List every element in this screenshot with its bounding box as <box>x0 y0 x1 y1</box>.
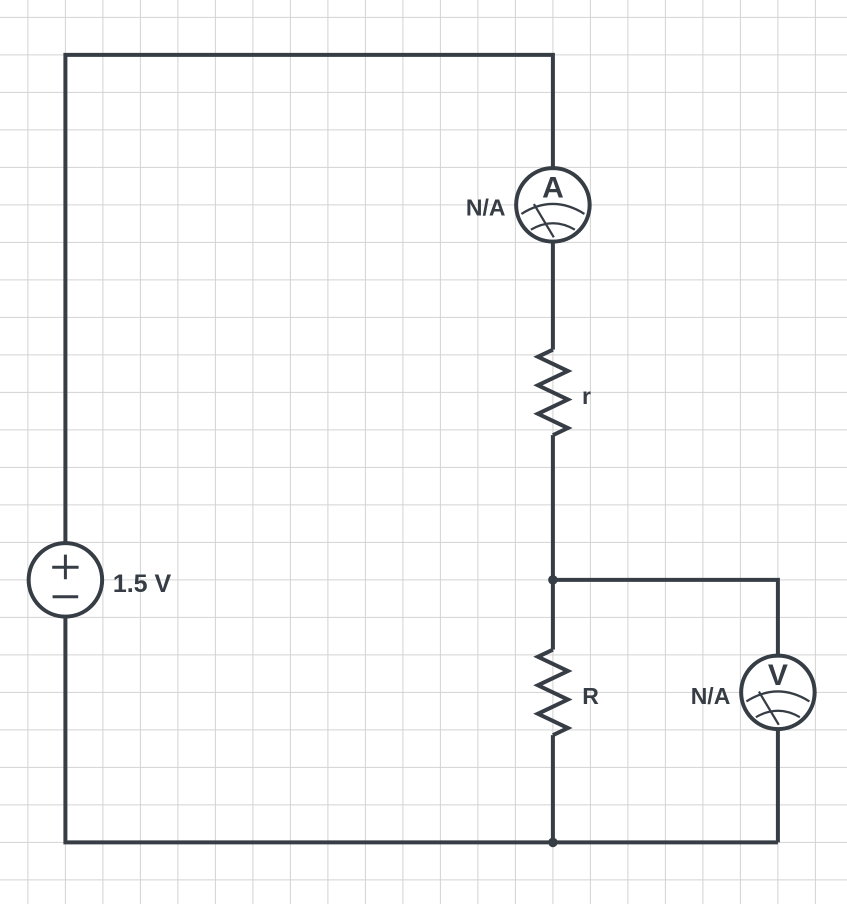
wire: node A to resistor R to bottom node B <box>551 580 555 843</box>
node B junction dot (bottom rail) <box>548 838 558 848</box>
wire: top rail from battery + to ammeter <box>65 55 553 580</box>
node A junction dot <box>548 575 558 585</box>
wire: bottom rail from battery - to voltmeter branch <box>65 580 778 843</box>
svg-text:r: r <box>582 383 591 409</box>
voltmeter V1 <box>741 656 815 730</box>
voltage source BAT1 1.5 V <box>29 543 103 617</box>
svg-text:A: A <box>542 172 564 205</box>
resistor r <box>538 350 568 436</box>
svg-text:N/A: N/A <box>466 195 506 221</box>
svg-text:1.5 V: 1.5 V <box>113 570 172 598</box>
wire: ammeter to resistor r to node A <box>551 205 555 580</box>
svg-text:N/A: N/A <box>691 683 731 709</box>
svg-text:V: V <box>768 659 788 692</box>
svg-text:R: R <box>582 683 599 709</box>
resistor R <box>538 650 568 736</box>
wire: voltmeter to bottom rail <box>776 692 780 842</box>
wire: node A to voltmeter branch <box>553 580 778 693</box>
ammeter A1 <box>516 168 590 242</box>
